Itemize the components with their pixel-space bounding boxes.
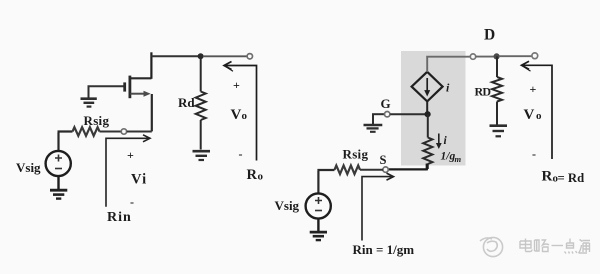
wire Vsig to ground xyxy=(57,176,59,190)
svg-text:V: V xyxy=(524,107,535,123)
svg-text:Vi: Vi xyxy=(131,172,147,188)
svg-text:Rin: Rin xyxy=(107,210,132,225)
ground (below Vsig) xyxy=(50,190,67,198)
svg-text:RD: RD xyxy=(475,85,492,99)
svg-text:o: o xyxy=(258,171,264,183)
svg-text:o: o xyxy=(242,110,248,122)
node D junction xyxy=(494,53,500,59)
svg-text:R: R xyxy=(542,169,553,185)
svg-text:+: + xyxy=(233,78,240,92)
current arrow i (through 1/gm) xyxy=(438,134,440,146)
resistor Rsig right xyxy=(335,166,361,175)
terminal G (open circle) xyxy=(385,112,390,117)
Rin indicator arrow right xyxy=(362,173,394,240)
点 xyxy=(565,239,578,254)
wire drain to node xyxy=(151,55,199,57)
watermark logo circle xyxy=(480,237,503,256)
svg-text:= Rd: = Rd xyxy=(558,171,585,185)
ground (gate bias) xyxy=(81,86,97,106)
source Vsig right (circle) xyxy=(306,193,331,218)
ground (below Rd) xyxy=(193,151,211,160)
电 xyxy=(520,239,532,252)
Rin indicator arrow xyxy=(106,135,150,207)
node below diamond (junction dot) xyxy=(425,111,431,117)
svg-text:Vsig: Vsig xyxy=(16,160,41,175)
Ro indicator arrow right xyxy=(522,61,553,159)
svg-text:m: m xyxy=(455,154,462,164)
node S (open circle) xyxy=(383,167,388,172)
路 xyxy=(535,240,550,252)
ground (below Vsig right) xyxy=(310,232,327,240)
wire terminal to D xyxy=(476,56,494,58)
output terminal right (open circle) xyxy=(532,53,538,59)
ground (G) xyxy=(364,114,383,132)
transistor Q1 (MOSFET) xyxy=(125,52,152,131)
svg-text:1/g: 1/g xyxy=(441,151,456,163)
dependent current source (diamond) xyxy=(412,72,443,102)
Ro indicator arrow xyxy=(224,62,257,161)
svg-text:S: S xyxy=(380,153,387,167)
ground (below RD) xyxy=(490,126,508,137)
svg-text:D: D xyxy=(484,27,495,44)
svg-text:-: - xyxy=(239,147,243,161)
svg-text:Vsig: Vsig xyxy=(275,198,300,213)
shaded model box xyxy=(401,51,466,166)
node S (open circle) xyxy=(121,129,126,134)
wire node to source xyxy=(127,131,152,133)
svg-text:G: G xyxy=(381,96,391,111)
svg-text:Rsig: Rsig xyxy=(84,113,110,128)
wire to output terminal xyxy=(203,55,247,57)
通 xyxy=(579,240,591,254)
wire Vsig to Rsig right xyxy=(317,170,334,194)
terminal (open circle, model output) xyxy=(470,54,475,59)
wire G to junction xyxy=(390,113,425,115)
svg-text:V: V xyxy=(231,107,242,123)
wire Vsig to Rsig xyxy=(58,132,73,152)
source Vsig (circle) xyxy=(46,151,71,176)
wire gate xyxy=(88,85,124,87)
wire Rsig to S xyxy=(360,169,383,171)
wire D to output terminal xyxy=(499,55,532,57)
svg-text:Rin = 1/gm: Rin = 1/gm xyxy=(353,242,415,257)
resistor 1/gm xyxy=(423,114,432,169)
wire diamond bottom to junction xyxy=(426,101,428,114)
wire Rsig to node xyxy=(100,131,122,133)
resistor Rsig xyxy=(73,127,100,136)
svg-text:+: + xyxy=(530,82,537,96)
output terminal (open circle) xyxy=(247,54,252,59)
bottom wire (S to 1/gm) xyxy=(389,164,427,171)
wire diamond top to terminal xyxy=(426,57,470,72)
svg-text:+: + xyxy=(127,148,134,162)
svg-text:Rsig: Rsig xyxy=(343,147,369,162)
wire Vsig right to ground xyxy=(317,219,319,233)
svg-text:o: o xyxy=(536,110,542,122)
svg-text:-: - xyxy=(532,147,536,161)
node drain junction xyxy=(198,53,204,59)
wire G ground to G terminal xyxy=(372,113,384,115)
resistor RD xyxy=(492,56,502,124)
watermark text 电路一点通 (simplified strokes) xyxy=(520,239,590,254)
一 xyxy=(552,245,564,247)
resistor Rd xyxy=(196,56,206,149)
svg-text:R: R xyxy=(247,167,258,183)
svg-text:-: - xyxy=(130,195,134,209)
svg-text:Rd: Rd xyxy=(178,95,195,110)
